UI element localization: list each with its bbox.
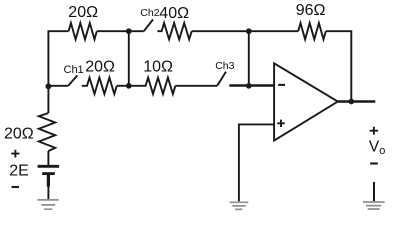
svg-text:40Ω: 40Ω (159, 5, 189, 22)
switch Ch1 blade (68, 75, 77, 85)
wire: thick op-amp output stub (338, 100, 376, 102)
svg-text:10Ω: 10Ω (143, 59, 173, 76)
node E (246, 83, 252, 89)
Vo minus polarity mark (370, 162, 378, 164)
switch Ch3 blade (217, 72, 226, 86)
wire: R4 to node D (117, 85, 129, 87)
wire: R3 to top-right corner, down to output node F (326, 31, 352, 101)
resistor R2 40Ω (157, 23, 191, 39)
svg-text:Ch3: Ch3 (215, 60, 234, 72)
wire: ground G3 stub (373, 182, 375, 201)
battery V1 long plate (38, 165, 60, 168)
svg-text:2E: 2E (9, 163, 29, 180)
op-amp plus symbol (277, 120, 284, 127)
ground G2 (230, 202, 249, 209)
battery minus polarity mark (12, 186, 19, 188)
Vo plus polarity mark (370, 127, 378, 135)
wire: non-inverting input lead (239, 124, 274, 201)
battery V1 negative stub (47, 174, 50, 187)
svg-text:20Ω: 20Ω (68, 4, 98, 21)
svg-text:Ch1: Ch1 (64, 64, 84, 76)
svg-text:Ch2: Ch2 (140, 7, 159, 19)
svg-text:20Ω: 20Ω (4, 125, 34, 142)
ground G1 (37, 200, 58, 209)
wire: R5 to switch Ch3 pivot (175, 85, 217, 87)
wire: node A to switch Ch2 pivot (129, 30, 144, 32)
switch Ch2 blade (144, 20, 153, 32)
wire: vertical from node B down to node E (248, 31, 250, 86)
op-amp U1 triangle (274, 63, 338, 140)
resistor R4 20Ω row2 (82, 78, 117, 94)
resistor R1 20Ω top (69, 23, 97, 39)
node B (246, 28, 252, 34)
node F output (348, 99, 354, 105)
svg-text:o: o (379, 145, 385, 157)
battery plus polarity mark (11, 150, 19, 158)
wire: battery to ground G1 (47, 187, 49, 200)
wire: node C down to vertical resistor R6 (47, 86, 49, 113)
svg-text:96Ω: 96Ω (296, 2, 326, 19)
wire: thick op-amp inverting input lead through node E (229, 84, 274, 87)
battery V1 short plate (42, 172, 55, 175)
wire: node C to switch Ch1 pivot (48, 85, 68, 87)
wire: vertical from node A down to node D (128, 31, 130, 86)
resistor R3 96Ω (298, 23, 326, 39)
node A (126, 28, 132, 34)
svg-text:20Ω: 20Ω (85, 58, 115, 75)
wire: R2 to node B to R3 (192, 30, 299, 32)
wire: R1 to node A (97, 30, 129, 32)
op-amp minus symbol (278, 84, 285, 86)
resistor R5 10Ω (129, 78, 176, 94)
ground G3 (363, 202, 385, 209)
resistor R6 20Ω vertical (39, 113, 55, 151)
wire: top-left corner + left rail down to node C (48, 31, 68, 86)
node D (126, 83, 132, 89)
node C (45, 83, 51, 89)
wire: R6 to battery (47, 151, 49, 165)
